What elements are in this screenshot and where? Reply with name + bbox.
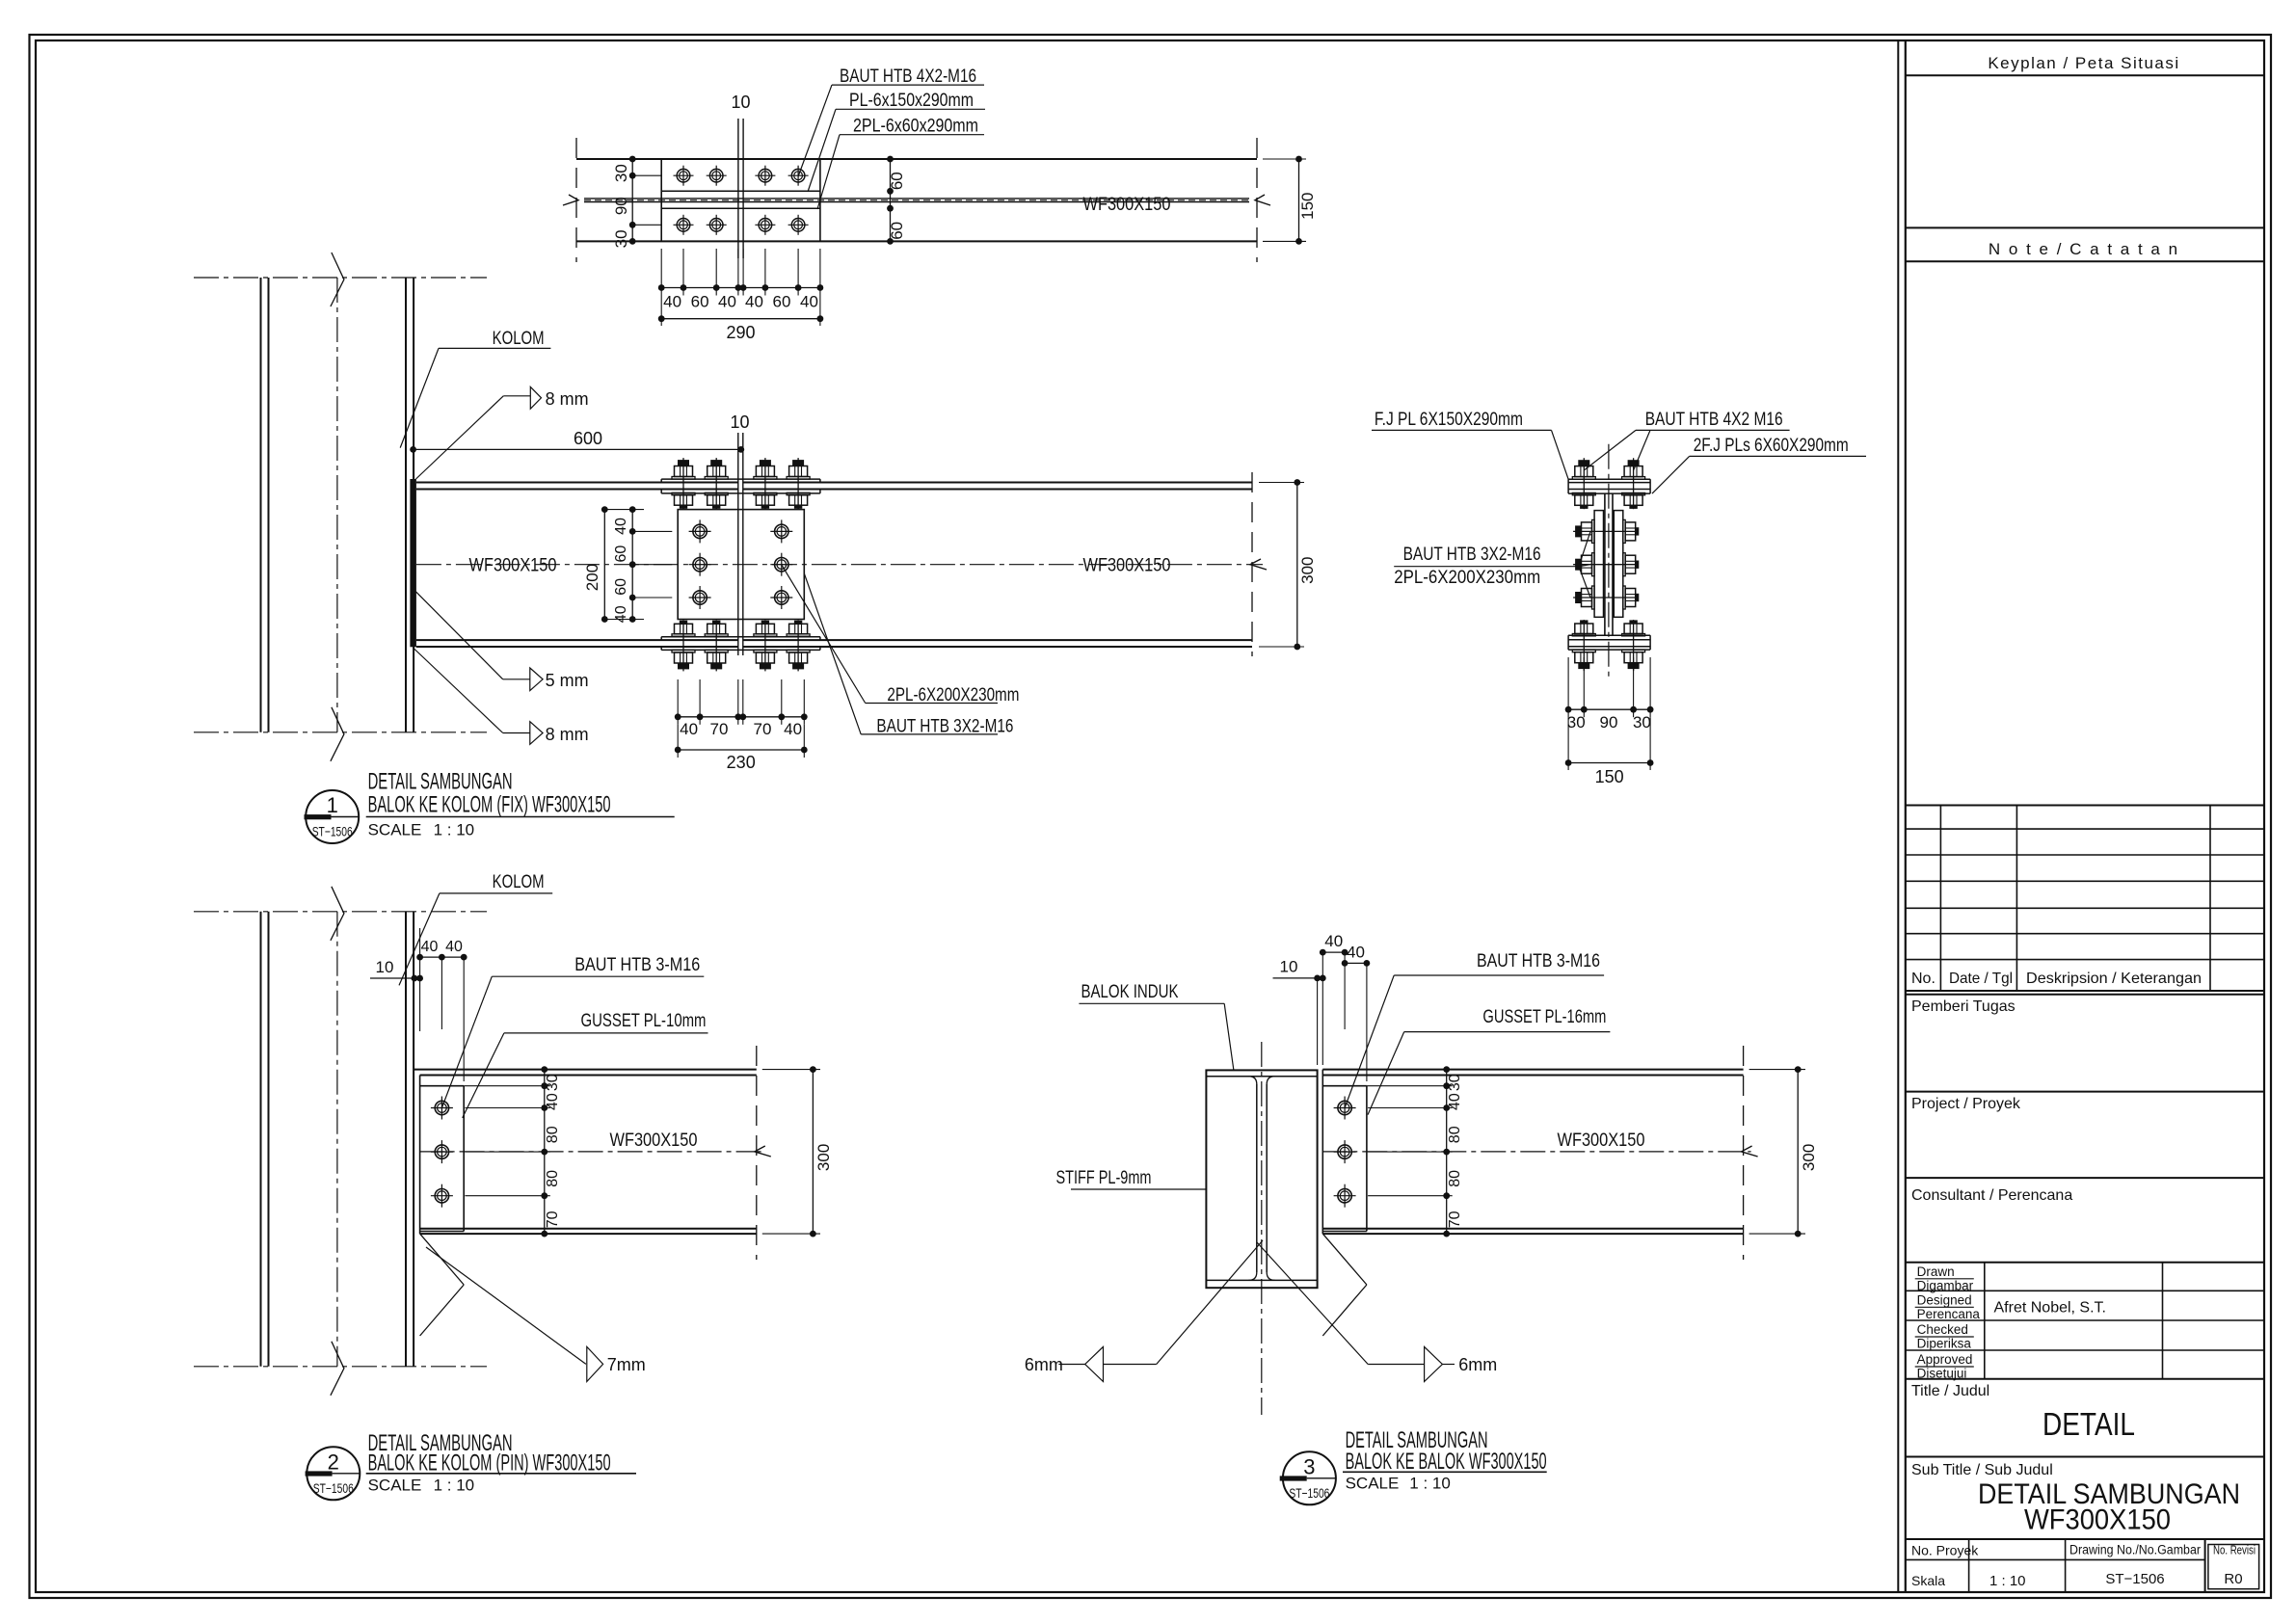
D3: dim 10 <box>1273 977 1323 979</box>
D1 plan: side plates 2PL-6x60x290 inner edges <box>661 190 820 192</box>
svg-text:5 mm: 5 mm <box>546 671 589 690</box>
D2: dim 10 <box>370 977 420 979</box>
svg-text:Drawn: Drawn <box>1917 1264 1955 1279</box>
svg-text:10: 10 <box>730 412 749 432</box>
svg-text:No.: No. <box>1911 971 1936 987</box>
svg-text:BALOK KE KOLOM (FIX) WF300X150: BALOK KE KOLOM (FIX) WF300X150 <box>368 791 611 817</box>
D1 plan: leader lines <box>798 85 832 176</box>
svg-text:290: 290 <box>726 323 755 342</box>
svg-text:40: 40 <box>1324 932 1343 950</box>
D1 front: flange splice plates <box>661 478 820 480</box>
D1 plan: web centre lines with break symbols <box>584 198 1249 200</box>
svg-text:8 mm: 8 mm <box>546 389 589 409</box>
D1 front: end plate (welded) <box>410 479 416 647</box>
svg-text:90: 90 <box>612 197 630 215</box>
D2: dim 300 <box>762 1069 820 1071</box>
svg-text:BAUT HTB 3X2-M16: BAUT HTB 3X2-M16 <box>1403 545 1541 565</box>
svg-text:70: 70 <box>1447 1211 1463 1228</box>
D2: dim chain 30/40/80/80/70 <box>544 1070 546 1235</box>
svg-text:30: 30 <box>612 229 630 248</box>
svg-text:SCALE: SCALE <box>368 1477 422 1495</box>
section: top flange splice stack F.J PL / flange / 2F.J PLs <box>1568 478 1650 480</box>
note header <box>1906 260 2264 262</box>
D2: beam end plate line <box>419 1076 421 1235</box>
D1 plan: bolts BAUT HTB 4X2-M16 <box>674 166 694 186</box>
svg-text:40: 40 <box>663 293 681 311</box>
svg-text:3: 3 <box>1303 1454 1315 1478</box>
svg-text:Deskripsion / Keterangan: Deskripsion / Keterangan <box>2026 971 2202 987</box>
signature table <box>1906 1290 2264 1291</box>
svg-text:200: 200 <box>583 564 601 591</box>
svg-text:300: 300 <box>814 1144 833 1171</box>
svg-text:10: 10 <box>1280 958 1298 976</box>
D3: girder web fillets <box>1248 1272 1256 1280</box>
D2: gusset plate GUSSET PL-10mm <box>420 1085 465 1087</box>
note box bottom <box>1906 805 2264 807</box>
svg-text:2PL-6X200X230mm: 2PL-6X200X230mm <box>887 685 1019 705</box>
D3: dim chain 30/40/80/80/70 <box>1446 1070 1448 1235</box>
svg-text:2F.J PLs 6X60X290mm: 2F.J PLs 6X60X290mm <box>1694 436 1849 456</box>
D1 front: flange bolts BAUT HTB 4X2 M16 <box>672 458 695 509</box>
D1 plan: bottom dim chain 40/60/40/40/60/40 <box>660 249 662 296</box>
svg-text:80: 80 <box>545 1170 561 1187</box>
D1 front: bottom dim 40/70/70/40 <box>677 679 679 725</box>
D1 front: weld 8mm top <box>416 396 504 479</box>
svg-text:70: 70 <box>545 1211 561 1228</box>
svg-text:Drawing No./No.Gambar: Drawing No./No.Gambar <box>2069 1543 2201 1557</box>
svg-text:BALOK KE KOLOM (PIN) WF300X150: BALOK KE KOLOM (PIN) WF300X150 <box>368 1450 611 1476</box>
svg-text:GUSSET PL-16mm: GUSSET PL-16mm <box>1482 1007 1606 1027</box>
svg-text:30: 30 <box>1567 713 1586 732</box>
svg-text:KOLOM: KOLOM <box>493 872 545 892</box>
svg-text:BALOK KE BALOK WF300X150: BALOK KE BALOK WF300X150 <box>1346 1449 1547 1475</box>
svg-text:Designed: Designed <box>1917 1293 1972 1308</box>
D3: girder flange inner lines <box>1206 1076 1317 1078</box>
D3 title <box>1283 1451 1336 1504</box>
svg-text:80: 80 <box>1447 1126 1463 1143</box>
D3: beam end break <box>1743 1046 1745 1260</box>
D1 front: weld 5mm <box>415 592 502 679</box>
D1 plan: right dim 150 <box>1263 158 1306 160</box>
D3: girder web <box>1256 1084 1258 1272</box>
svg-text:90: 90 <box>1600 713 1618 732</box>
D2: weld 7mm <box>426 1247 586 1364</box>
D1 front: total dim 230 <box>678 749 804 751</box>
D1 front: column break lines <box>194 277 487 279</box>
svg-text:Digambar: Digambar <box>1917 1278 1974 1292</box>
D1 plan: flange splice plate PL-6x150x290 <box>660 159 662 241</box>
svg-text:40: 40 <box>421 939 439 955</box>
svg-text:Skala: Skala <box>1911 1573 1945 1588</box>
svg-text:Approved: Approved <box>1917 1352 1973 1367</box>
svg-text:Project / Proyek: Project / Proyek <box>1911 1096 2021 1112</box>
svg-text:WF300X150: WF300X150 <box>610 1131 698 1151</box>
svg-text:40: 40 <box>445 939 463 955</box>
svg-text:BAUT HTB 4X2 M16: BAUT HTB 4X2 M16 <box>1645 410 1783 430</box>
D2: beam WF300X150 <box>414 1069 757 1071</box>
svg-text:WF300X150: WF300X150 <box>1083 556 1171 576</box>
svg-text:40: 40 <box>545 1093 561 1110</box>
svg-text:DETAIL: DETAIL <box>2042 1406 2135 1442</box>
section: flange bolts <box>1572 458 1595 509</box>
D2: beam end break <box>756 1046 758 1260</box>
svg-text:Date / Tgl: Date / Tgl <box>1949 971 2013 987</box>
D1 front: splice gap lines <box>737 433 739 655</box>
svg-text:1 : 10: 1 : 10 <box>1409 1475 1451 1493</box>
svg-text:40: 40 <box>745 293 763 311</box>
svg-text:1 : 10: 1 : 10 <box>434 821 475 839</box>
svg-text:No. Revisi: No. Revisi <box>2213 1544 2256 1557</box>
svg-text:BAUT HTB 3-M16: BAUT HTB 3-M16 <box>1477 951 1600 971</box>
D1 front: column KOLOM <box>260 278 262 732</box>
D3: beam WF300X150 <box>1322 1069 1743 1071</box>
svg-text:Sub Title / Sub Judul: Sub Title / Sub Judul <box>1911 1462 2053 1478</box>
svg-text:300: 300 <box>1800 1144 1818 1171</box>
svg-text:1 : 10: 1 : 10 <box>434 1477 475 1495</box>
svg-text:150: 150 <box>1298 193 1317 220</box>
D1 front: beam end break <box>1251 472 1253 656</box>
svg-text:WF300X150: WF300X150 <box>469 556 557 576</box>
svg-text:SCALE: SCALE <box>368 821 422 839</box>
D1 plan: total dim 290 <box>661 318 820 320</box>
svg-text:10: 10 <box>376 958 394 976</box>
svg-text:Afret Nobel, S.T.: Afret Nobel, S.T. <box>1994 1300 2107 1317</box>
D1 plan: right dim 60/60 <box>890 159 892 241</box>
svg-text:2: 2 <box>328 1450 339 1474</box>
D2: bolts BAUT HTB 3-M16 <box>431 1097 453 1120</box>
svg-text:F.J PL 6X150X290mm: F.J PL 6X150X290mm <box>1375 410 1523 430</box>
svg-text:230: 230 <box>727 753 756 772</box>
section: web splice plates 2PL-6X200X230 <box>1594 511 1603 618</box>
D3: gusset weld chevron <box>1322 1234 1367 1285</box>
section: bottom flange splice stack <box>1568 634 1650 636</box>
D3: girder BALOK INDUK outline <box>1206 1070 1317 1288</box>
svg-text:40: 40 <box>680 720 698 738</box>
section: dim 30/90/30 <box>1567 657 1569 717</box>
D1 front: labels 2PL / BAUT <box>782 565 866 704</box>
svg-text:300: 300 <box>1298 557 1317 584</box>
svg-text:Perencana: Perencana <box>1917 1307 1981 1321</box>
svg-text:10: 10 <box>731 93 750 112</box>
section: total dim 150 <box>1568 762 1650 764</box>
D2: gusset weld chevron <box>420 1234 465 1285</box>
svg-text:2PL-6X200X230mm: 2PL-6X200X230mm <box>1394 568 1540 588</box>
svg-text:40: 40 <box>1347 944 1365 962</box>
D1 front: web splice plate 2PL-6X200X230 <box>678 510 804 620</box>
svg-text:2PL-6x60x290mm: 2PL-6x60x290mm <box>853 117 978 137</box>
svg-text:Checked: Checked <box>1917 1322 1968 1337</box>
D3: weld 6mm right <box>1368 1364 1424 1366</box>
svg-text:ST−1506: ST−1506 <box>1289 1485 1329 1501</box>
svg-text:70: 70 <box>754 720 772 738</box>
svg-text:DETAIL SAMBUNGAN: DETAIL SAMBUNGAN <box>368 768 513 794</box>
svg-text:BAUT HTB 3X2-M16: BAUT HTB 3X2-M16 <box>876 716 1013 736</box>
D3: girder centre line <box>1261 1042 1263 1415</box>
svg-text:30: 30 <box>612 164 630 182</box>
svg-text:6mm: 6mm <box>1458 1355 1497 1374</box>
section: centre line <box>1608 444 1610 681</box>
svg-text:Consultant / Perencana: Consultant / Perencana <box>1911 1187 2072 1204</box>
D1 front: weld 8mm bottom <box>414 648 503 733</box>
D1 plan: left dim 30/90/30 <box>631 159 633 241</box>
D3: dims 40 40 staggered <box>1322 951 1345 953</box>
svg-text:BAUT HTB 4X2-M16: BAUT HTB 4X2-M16 <box>840 67 976 87</box>
svg-text:ST−1506: ST−1506 <box>313 1480 354 1496</box>
D2: dims 40 40 <box>420 956 465 958</box>
svg-text:40: 40 <box>613 518 629 535</box>
svg-text:80: 80 <box>545 1126 561 1143</box>
svg-text:40: 40 <box>613 605 629 623</box>
svg-text:ST−1506: ST−1506 <box>312 824 353 839</box>
svg-text:30: 30 <box>1447 1074 1463 1091</box>
D1 front: left dim 200 & 40/60/60/40 <box>603 510 605 620</box>
svg-text:40: 40 <box>1447 1093 1463 1110</box>
D2: column KOLOM <box>260 912 262 1367</box>
svg-text:60: 60 <box>613 545 629 563</box>
svg-text:R0: R0 <box>2224 1571 2242 1587</box>
D1 front: beam left part WF300X150 <box>416 482 738 484</box>
svg-text:60: 60 <box>888 222 906 240</box>
revision table <box>1906 828 2264 830</box>
svg-text:30: 30 <box>1633 713 1651 732</box>
svg-text:Diperiksa: Diperiksa <box>1917 1337 1972 1351</box>
svg-text:600: 600 <box>574 429 602 448</box>
svg-text:30: 30 <box>545 1074 561 1091</box>
svg-text:KOLOM: KOLOM <box>493 329 545 349</box>
bottom info rows <box>1906 1558 2205 1560</box>
svg-text:7mm: 7mm <box>607 1355 646 1374</box>
svg-text:Keyplan / Peta Situasi: Keyplan / Peta Situasi <box>1988 54 2179 72</box>
D1 front: dim 600 <box>414 448 741 450</box>
svg-text:60: 60 <box>773 293 791 311</box>
keyplan box <box>1906 226 2264 228</box>
D1 plan: splice gap 10 <box>737 119 739 258</box>
D2: column break lines <box>194 911 487 913</box>
D1 plan: beam end phantom lines <box>575 138 577 262</box>
keyplan header <box>1906 74 2264 76</box>
svg-text:SCALE: SCALE <box>1346 1475 1400 1493</box>
D3: bolts BAUT HTB 3-M16 <box>1334 1097 1356 1120</box>
svg-text:80: 80 <box>1447 1170 1463 1187</box>
D1 title <box>306 790 359 843</box>
svg-text:40: 40 <box>800 293 818 311</box>
D3: dim 300 <box>1749 1069 1805 1071</box>
D1 front: beam right part <box>743 482 1252 484</box>
svg-text:WF300X150: WF300X150 <box>1558 1131 1645 1151</box>
svg-text:150: 150 <box>1595 767 1624 786</box>
D2 title <box>307 1447 360 1500</box>
svg-text:WF300X150: WF300X150 <box>1083 195 1171 215</box>
svg-text:WF300X150: WF300X150 <box>2024 1504 2171 1536</box>
svg-text:60: 60 <box>888 172 906 190</box>
svg-text:BAUT HTB 3-M16: BAUT HTB 3-M16 <box>574 955 700 975</box>
svg-text:40: 40 <box>784 720 802 738</box>
svg-text:40: 40 <box>718 293 736 311</box>
svg-text:8 mm: 8 mm <box>546 725 589 744</box>
svg-text:No. Proyek: No. Proyek <box>1911 1543 1979 1558</box>
title block separator <box>1897 40 1899 1592</box>
svg-text:6mm: 6mm <box>1025 1355 1063 1374</box>
D1 plan: beam outline WF300X150 <box>576 158 1257 160</box>
svg-text:N o t e / C a t a t a n: N o t e / C a t a t a n <box>1989 240 2179 258</box>
svg-text:60: 60 <box>613 578 629 596</box>
svg-text:PL-6x150x290mm: PL-6x150x290mm <box>849 91 974 111</box>
svg-text:1: 1 <box>327 793 338 817</box>
svg-text:Title / Judul: Title / Judul <box>1911 1383 1989 1399</box>
svg-text:Disetujui: Disetujui <box>1917 1367 1967 1381</box>
svg-text:60: 60 <box>691 293 709 311</box>
svg-text:GUSSET PL-10mm: GUSSET PL-10mm <box>581 1011 707 1031</box>
section: web bolts <box>1573 519 1639 543</box>
svg-text:70: 70 <box>710 720 729 738</box>
svg-text:1 : 10: 1 : 10 <box>1989 1573 2026 1589</box>
D1 front: dim 300 right <box>1259 482 1304 484</box>
svg-text:STIFF PL-9mm: STIFF PL-9mm <box>1056 1168 1152 1188</box>
svg-text:ST−1506: ST−1506 <box>2105 1571 2164 1587</box>
D1 front: beam centre line <box>416 564 1263 566</box>
D3: gusset plate GUSSET PL-16mm <box>1322 1085 1367 1087</box>
section: beam web <box>1604 493 1606 635</box>
svg-text:BALOK INDUK: BALOK INDUK <box>1081 982 1179 1002</box>
svg-text:Pemberi Tugas: Pemberi Tugas <box>1911 998 2016 1015</box>
D1 front: web bolts BAUT HTB 3X2-M16 <box>689 519 711 543</box>
